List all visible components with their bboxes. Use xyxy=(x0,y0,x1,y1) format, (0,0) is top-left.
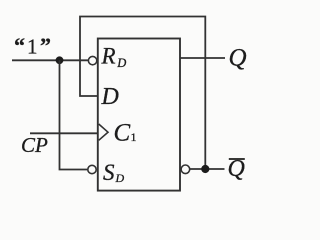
node: junction on "1" wire xyxy=(56,56,64,64)
svg-text:”: ” xyxy=(40,33,51,58)
svg-text:1: 1 xyxy=(131,130,137,144)
flip-flop body U1 xyxy=(98,39,180,191)
svg-text:D: D xyxy=(101,84,119,110)
svg-text:C: C xyxy=(114,120,131,147)
clock triangle at C1 pin xyxy=(99,124,108,140)
svg-text:D: D xyxy=(115,171,125,185)
wire: junction down to SD xyxy=(60,60,88,169)
inverter bubble on RD pin xyxy=(88,56,96,64)
wire: CP input xyxy=(30,132,98,134)
node: junction on Q-bar wire (feedback tap) xyxy=(201,165,209,173)
wire: Q-bar output xyxy=(190,168,225,170)
svg-text:1: 1 xyxy=(27,35,38,59)
svg-text:Q: Q xyxy=(229,44,247,71)
svg-text:S: S xyxy=(103,160,115,185)
wire: feedback from Q-bar node up over top and down to D input xyxy=(80,17,205,170)
inverter bubble on SD pin xyxy=(88,165,96,173)
svg-text:D: D xyxy=(116,56,126,70)
inverter bubble on Q-bar pin xyxy=(181,165,190,174)
wire: "1" to RD input xyxy=(12,59,88,61)
svg-text:R: R xyxy=(101,44,116,69)
overbar of Q-bar xyxy=(229,158,245,160)
svg-text:“: “ xyxy=(14,33,25,58)
wire: Q output xyxy=(180,57,225,59)
svg-text:CP: CP xyxy=(21,133,48,157)
